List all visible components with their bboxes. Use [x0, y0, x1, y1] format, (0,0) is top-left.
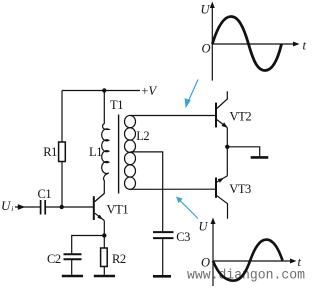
node : emitter junction dot: [102, 233, 106, 237]
wire : L2 centre tap to C3: [131, 152, 163, 231]
resistor R1: [59, 142, 66, 162]
svg-text:t: t: [303, 39, 307, 53]
capacitor C1: [40, 200, 42, 215]
blue arrow 2 : pointer to VT3 base wire: [176, 197, 198, 219]
wire : C3 to ground: [162, 238, 164, 275]
wire : +V top rail: [62, 90, 140, 92]
svg-text:T1: T1: [110, 98, 123, 112]
svg-text:VT3: VT3: [229, 182, 251, 196]
svg-text:C1: C1: [38, 187, 52, 201]
svg-text:C2: C2: [47, 252, 61, 266]
wire : C1 to VT1 base: [45, 206, 93, 208]
wire : junction to right ground: [227, 147, 259, 156]
capacitor C3: [153, 231, 174, 233]
wire : left vertical rail to R1: [61, 91, 63, 143]
chart : top output waveform: [201, 2, 307, 81]
inductor L1 : primary winding: [95, 91, 109, 202]
svg-text:L1: L1: [89, 145, 102, 159]
inductor L2 : secondary winding: [130, 116, 216, 190]
wire : R2 to ground: [103, 267, 105, 275]
ground : right of emitter junction: [251, 156, 269, 159]
transistor VT3: [226, 147, 228, 176]
svg-text:C3: C3: [176, 230, 190, 244]
wire : emitter to C2 branch: [72, 236, 105, 254]
blue arrow 1 : pointer to VT2 base wire: [185, 80, 198, 109]
svg-text:R1: R1: [43, 145, 57, 159]
svg-text:L2: L2: [136, 129, 149, 143]
wire : VT1 emitter down: [103, 221, 105, 249]
transformer T1 core: [118, 115, 120, 194]
svg-text:U: U: [199, 220, 209, 234]
node : base junction dot: [60, 205, 64, 209]
svg-text:R2: R2: [112, 252, 126, 266]
ground : under C3: [153, 275, 171, 278]
transistor VT2: [215, 103, 217, 128]
svg-text:O: O: [202, 42, 211, 56]
svg-text:VT1: VT1: [107, 203, 129, 217]
ground : under R2: [94, 275, 115, 278]
svg-text:U: U: [201, 3, 211, 17]
resistor R2: [101, 248, 108, 267]
node : emitter junction of VT2/VT3: [225, 145, 229, 149]
svg-text:VT2: VT2: [230, 110, 252, 124]
wire : C2 to ground: [71, 259, 73, 275]
capacitor C2: [64, 253, 82, 255]
chart : bottom output waveform: [199, 218, 302, 287]
svg-text:i: i: [11, 204, 13, 213]
wire : VT2 emitter to junction: [226, 128, 228, 147]
ground : under C2: [62, 275, 83, 278]
transistor VT1: [93, 196, 95, 220]
svg-text:t: t: [298, 255, 302, 269]
svg-text:O: O: [201, 256, 210, 270]
svg-text:+V: +V: [141, 84, 158, 98]
node : rail/L1 junction dot: [102, 88, 106, 92]
wire : R1 to input node: [61, 162, 63, 208]
